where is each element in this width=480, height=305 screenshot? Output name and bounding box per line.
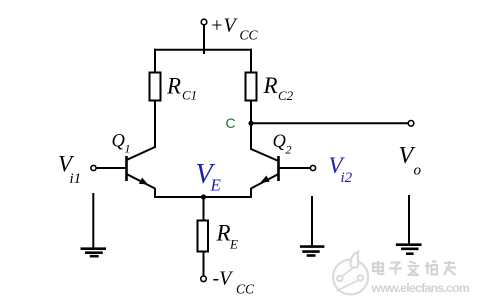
resistor RC1 bbox=[150, 73, 161, 101]
wire left branch upper bbox=[154, 49, 156, 73]
svg-text:www.elecfans.com: www.elecfans.com bbox=[371, 281, 470, 295]
ground left bbox=[81, 193, 107, 256]
terminal +Vcc bbox=[201, 19, 207, 25]
svg-text:-V: -V bbox=[213, 268, 235, 290]
svg-text:CC: CC bbox=[240, 28, 259, 43]
terminal -Vcc bbox=[201, 276, 207, 282]
ground middle bbox=[300, 196, 325, 256]
svg-text:CC: CC bbox=[236, 282, 255, 297]
svg-text:C1: C1 bbox=[182, 88, 197, 103]
svg-text:Q: Q bbox=[112, 132, 126, 152]
node VE junction bbox=[201, 194, 206, 199]
svg-text:Q: Q bbox=[273, 132, 287, 152]
svg-text:C2: C2 bbox=[278, 88, 294, 103]
terminal Vo bbox=[408, 121, 414, 127]
node C junction bbox=[248, 121, 253, 126]
watermark chinese text bbox=[373, 261, 456, 275]
wire top rail bbox=[154, 49, 252, 51]
svg-text:o: o bbox=[414, 163, 422, 179]
wire RC1 to Q1 collector bbox=[154, 101, 156, 149]
svg-text:E: E bbox=[210, 176, 222, 195]
svg-text:i2: i2 bbox=[341, 170, 353, 186]
svg-text:C: C bbox=[226, 115, 236, 131]
wire right branch upper bbox=[250, 49, 252, 73]
wire rail to RE bbox=[203, 197, 205, 221]
svg-text:E: E bbox=[229, 237, 238, 252]
resistor RE bbox=[198, 221, 209, 252]
wire RE to -Vcc bbox=[203, 252, 205, 277]
svg-text:R: R bbox=[216, 221, 231, 246]
svg-text:+V: +V bbox=[210, 15, 238, 37]
transistor Q2 bbox=[251, 123, 311, 198]
svg-text:2: 2 bbox=[286, 143, 292, 157]
wire RC2 to node C bbox=[250, 101, 252, 125]
svg-text:R: R bbox=[166, 74, 181, 99]
watermark logo bbox=[333, 252, 368, 295]
wire bottom rail bbox=[154, 196, 252, 198]
svg-text:1: 1 bbox=[125, 142, 131, 156]
svg-text:i1: i1 bbox=[70, 171, 82, 187]
ground right bbox=[396, 195, 422, 254]
transistor Q1 bbox=[96, 147, 155, 198]
svg-text:R: R bbox=[263, 73, 278, 98]
wire output line bbox=[251, 122, 409, 124]
terminal Vi1 bbox=[91, 165, 96, 170]
resistor RC2 bbox=[246, 73, 257, 101]
wire +Vcc drop bbox=[203, 24, 205, 54]
terminal Vi2 bbox=[310, 165, 315, 170]
